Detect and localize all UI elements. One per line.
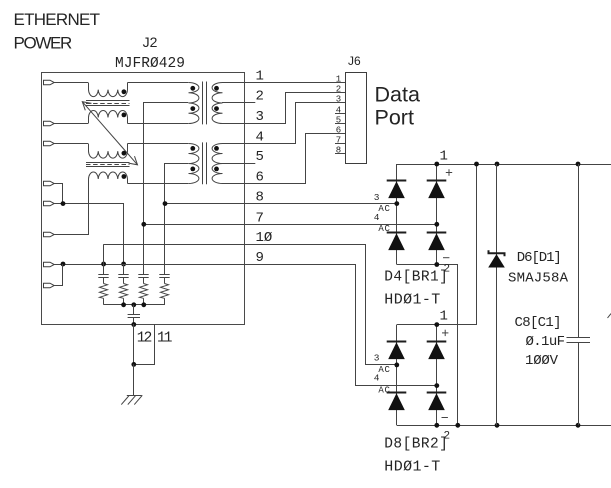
BR1 minus rail down to negative rail [397,265,458,426]
wire J2 pin 10 to BR2 AC input 3 [104,245,397,365]
BR1 diode bottom-left [387,232,407,234]
svg-text:2: 2 [256,89,264,105]
J2 left pin H [44,283,55,288]
J6 pin number labels [336,74,341,155]
wire W1 to T1 primary top [128,82,189,84]
BR2 right column [436,325,438,426]
svg-text:6: 6 [256,169,264,185]
BR1 diode top-right [427,180,447,182]
BR1 diode top-left [387,180,407,182]
junction pin 8 tap at branch 4 [163,201,168,206]
BR1 minus sign [443,257,449,259]
resistor of RC branch 4 [161,284,169,299]
wire W2 to T1 primary bottom [128,123,189,125]
svg-text:4: 4 [374,212,380,223]
svg-text:HDØ1-T: HDØ1-T [384,458,440,475]
junction C8 at negative rail [576,423,581,428]
wire pin G row / RC common, exits as pin 9 [54,264,356,266]
transformer T1 secondary winding [212,83,222,124]
BR1 diode bottom-right [427,232,447,234]
wire pin B to choke L1 winding W2 [54,123,88,125]
ground symbol [121,395,142,404]
junction C8 at positive rail [576,162,581,167]
svg-text:5: 5 [256,149,264,165]
D6 triangle [488,254,505,267]
wire T1 primary center tap down to RC branch 3 [144,103,189,275]
svg-text:2: 2 [444,264,451,276]
BR2 minus sign [442,417,448,419]
wire J2 pin 8 to BR1 AC input 3 [165,203,397,205]
svg-text:12: 12 [137,331,153,347]
connector J6 body [346,73,367,164]
J2 left pin E [44,201,55,206]
resistor of RC branch 3 [140,284,148,299]
choke L2 winding W3 [89,144,128,159]
BR2 plus rail up to positive rail [397,164,477,325]
svg-text:D4[BR1]: D4[BR1] [384,270,448,286]
wire T1 secondary pin 1 to J6 pin 1 [222,82,345,84]
svg-text:2: 2 [336,84,341,94]
capacitor of RC branch 4 [159,274,169,276]
BR1 plus sign [446,169,452,175]
svg-text:2: 2 [444,431,451,443]
svg-text:1: 1 [440,309,448,325]
BR2 left column [396,325,398,426]
svg-text:POWER: POWER [14,33,73,52]
resistor of RC branch 2 [120,284,128,299]
junction pins 11 and 12 [131,362,136,367]
svg-text:1ØØV: 1ØØV [525,353,559,369]
svg-text:AC: AC [378,204,390,214]
title text ETHERNET POWER [14,10,101,52]
choke L1 winding W2 [89,111,128,124]
svg-text:1: 1 [336,74,341,84]
svg-text:4: 4 [256,129,264,145]
J2 left pin B [44,121,55,126]
partial mark at right image edge [608,314,611,319]
svg-text:Port: Port [375,105,414,129]
svg-text:4: 4 [374,372,380,383]
TVS diode D6[D1] branch [496,164,498,425]
svg-text:9: 9 [256,250,264,266]
wire pin 10 drop to RC common row [103,244,105,264]
svg-text:AC: AC [378,224,390,234]
BR2 diode top-right [427,341,447,343]
BR1 left column [396,164,398,265]
junction branch 1 top [101,262,106,267]
svg-text:5: 5 [336,115,341,125]
svg-text:7: 7 [336,135,341,145]
junction pin 7 tap at branch 3 [141,222,146,227]
resistor of RC branch 1 [100,284,108,299]
svg-text:1: 1 [440,149,448,165]
BR2 junction bottom [434,423,439,428]
svg-text:6: 6 [336,125,341,135]
svg-text:1: 1 [256,68,264,84]
svg-text:AC: AC [378,365,390,375]
BR1 junction bottom [434,262,439,267]
J2 left pin F [44,232,55,237]
wire pin H up to pin G row [54,264,62,286]
BR2 diode bottom-right [427,392,447,394]
svg-text:SMAJ58A: SMAJ58A [508,271,569,287]
junction D6 at negative rail [495,423,500,428]
Data Port label [375,82,420,129]
J2 left pin C [44,141,55,146]
wire pin F up to choke L2 winding W4 [54,183,88,234]
junctions on RC bottom rail [121,302,126,307]
junction BR1 minus at negative rail [455,423,460,428]
J2 left pin G [44,262,55,267]
choke L2 winding W4 [89,172,128,183]
J2 left pin D [44,181,55,186]
BR1 AC tap junctions [394,201,399,206]
svg-text:3: 3 [374,352,380,363]
RC common bottom rail [104,304,165,306]
svg-text:J2: J2 [143,34,158,50]
svg-text:MJFRØ429: MJFRØ429 [115,56,185,72]
wire T2 secondary pin 4 to J6 pin 3 [222,103,345,144]
wire pin C to choke L2 winding W3 [54,143,88,145]
junction BR2 plus at positive rail [474,162,479,167]
svg-text:D6[D1]: D6[D1] [517,250,562,266]
svg-text:AC: AC [378,386,390,396]
choke L1 winding W1 [89,83,128,97]
capacitor C8[C1] branch [578,164,580,337]
wire pin D down to pin E node [54,184,62,204]
choke L2 core [86,162,130,164]
stub J2 pin 2 center tap [222,102,255,104]
D6 zener bar [489,250,505,256]
junction at J2 box bottom [131,322,136,327]
J6 unconnected pin stubs 4 5 7 8 [335,113,345,115]
positive top rail [397,164,611,166]
svg-text:1Ø: 1Ø [256,230,273,246]
svg-text:4: 4 [336,105,341,115]
series capacitor to shield pin [133,305,135,315]
BR2 plus sign [442,330,448,336]
wire T1 secondary pin 3 to J6 pin 2 [222,93,345,124]
junction pin D/E [61,201,66,206]
transformer T1 core [202,82,204,125]
transformer T2 core [202,142,204,184]
wire J2 pin 7 to BR1 AC input 4 [144,224,437,226]
BR2 diode bottom-left [387,392,407,394]
BR1 junction top [434,162,439,167]
wire pin A to choke L1 winding W1 [54,82,88,84]
junction branch 2 top [121,262,126,267]
transformer T2 secondary winding [212,144,222,184]
svg-text:J6: J6 [348,54,361,68]
svg-text:ETHERNET: ETHERNET [14,10,101,29]
svg-text:Data: Data [375,82,420,106]
wire T2 primary center tap down to RC branch 4 [165,164,189,275]
connector J2 body [42,73,245,325]
BR2 junction top [434,322,439,327]
BR2 AC tap junctions [394,363,399,368]
stub J2 pin 5 center tap [222,163,255,165]
negative bottom rail [397,425,611,427]
svg-text:D8[BR2]: D8[BR2] [384,437,448,453]
wire pin E row to RC branch 2 [54,204,123,265]
svg-text:3: 3 [256,109,264,125]
svg-text:11: 11 [157,331,173,347]
choke L1 core [86,100,130,102]
junction D6 at positive rail [495,162,500,167]
coupling arrow across chokes [82,102,137,165]
transformer T1 primary winding [189,83,199,124]
wire J2 pin 9 to BR2 AC input 4 [356,264,437,386]
wire W3 to T2 primary top [128,143,189,145]
BR2 diode top-left [387,341,407,343]
svg-text:8: 8 [336,145,341,155]
J2 pin 11 lead [134,324,155,365]
svg-text:HDØ1-T: HDØ1-T [384,292,440,309]
wire T2 secondary pin 6 to J6 pin 6 [222,134,345,184]
capacitor of RC branch 2 [118,274,128,276]
svg-text:3: 3 [374,192,380,203]
wire down to ground [133,364,135,395]
wire W4 to T2 primary bottom [128,183,189,185]
svg-text:C8[C1]: C8[C1] [515,315,562,331]
svg-text:7: 7 [256,210,264,226]
junction pin G/H [61,262,66,267]
svg-text:Ø.1uF: Ø.1uF [526,334,566,350]
svg-text:3: 3 [336,94,341,104]
BR1 right column [436,164,438,265]
transformer T2 primary winding [189,144,199,184]
capacitor of RC branch 1 [98,274,108,276]
capacitor of RC branch 3 [138,274,148,276]
J2 left pin A [44,80,55,85]
J2 pin 12 lead [133,324,135,364]
J2 right pin number labels [256,68,273,266]
